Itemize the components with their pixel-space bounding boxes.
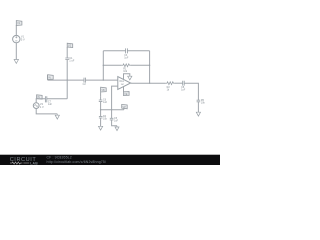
junction (C1 branch / inverting input wire) — [67, 79, 68, 80]
svg-text:1uF: 1uF — [114, 119, 119, 122]
schematic background — [0, 0, 220, 165]
flag F6 (op-amp V- supply label) — [124, 92, 130, 96]
capacitor C9 (vertical, output load) — [197, 99, 206, 104]
svg-text:5 V: 5 V — [21, 38, 25, 42]
flag F2 (node label top of C1 branch) — [67, 43, 73, 53]
wire C7 to middle branch corner — [47, 98, 67, 100]
svg-text:IN: IN — [48, 76, 51, 79]
svg-text:1 V: 1 V — [40, 105, 44, 109]
ground (op-amp V+ pin) — [128, 76, 132, 80]
ground (+input branch) — [115, 126, 119, 131]
junction (+input branch / horizontal wire) — [111, 109, 112, 110]
junction (right rail / output wire) — [149, 83, 150, 84]
ground (divider column) — [99, 126, 103, 130]
wire C9 to ground — [197, 102, 199, 112]
resistor R2 (series, output wire) — [166, 82, 175, 92]
resistor R4 (vertical, divider column lower) — [99, 115, 108, 120]
junction (left rail / middle wire) — [103, 65, 104, 66]
op-amp + input stub — [112, 86, 118, 110]
svg-text:V1: V1 — [17, 21, 21, 25]
capacitor C7 (series, input wire) — [45, 96, 52, 106]
wire C8 to right-down corner — [184, 83, 198, 100]
ground (below V1) — [14, 60, 18, 64]
svg-text:1uF: 1uF — [48, 103, 53, 106]
flag F5 (node label top of divider column) — [101, 87, 107, 96]
svg-text:1uF: 1uF — [103, 101, 108, 104]
flag F1 (node label above V1) — [16, 21, 22, 30]
capacitor C5 (vertical, +input branch) — [110, 110, 119, 123]
svg-text:1uF: 1uF — [124, 56, 129, 59]
resistor R1 (feedback middle wire) — [122, 64, 131, 73]
wire AC bottom to ground — [36, 109, 57, 114]
wire V1 to ground — [15, 43, 17, 60]
op-amp OA1 — [118, 77, 131, 90]
wire AC top to flag / series cap — [36, 99, 45, 103]
wire C6 to junction — [100, 102, 102, 117]
AC source V2 — [33, 102, 44, 109]
feedback box right rail — [149, 51, 151, 83]
svg-text:CF : 9C8265L2: CF : 9C8265L2 — [47, 155, 72, 159]
op-amp V+ pin wire to ground — [124, 74, 130, 80]
wire R4 to ground — [100, 118, 102, 126]
wire inverting input row (left part) — [48, 79, 84, 81]
wire inverting input row (right part, to op-amp) — [86, 79, 118, 81]
svg-text:VE: VE — [124, 93, 128, 96]
capacitor C1 (vertical, middle branch) — [65, 53, 75, 63]
wire divider junction to flag F7 — [101, 109, 124, 111]
wire C5 to ground corner — [112, 120, 117, 126]
svg-text:1uF: 1uF — [181, 89, 186, 92]
feedback box left rail — [102, 51, 104, 80]
svg-text:http://circuitlab.com/c/6N2v8h: http://circuitlab.com/c/6N2v8hng75/ — [47, 160, 107, 164]
capacitor C3 (series, feedback top wire) — [124, 48, 129, 59]
svg-text:V2: V2 — [68, 44, 72, 48]
flag F7 (node label, right end of horizontal wire) — [122, 104, 128, 109]
voltage source V1 — [13, 30, 25, 43]
svg-text:OA1: OA1 — [119, 80, 124, 83]
output wire (op-amp to R2) — [131, 82, 166, 84]
op-amp V- pin wire — [123, 87, 125, 92]
capacitor C2 (series, inverting wire) — [83, 78, 87, 87]
watermark bar — [0, 155, 220, 165]
svg-text:VP: VP — [123, 106, 127, 109]
wire R2 to C8 — [174, 82, 182, 84]
feedback top wire — [103, 50, 149, 52]
ground (output load) — [196, 112, 200, 116]
capacitor C6 (vertical, divider column upper) — [99, 96, 108, 104]
ground (AC source) — [55, 114, 59, 119]
junction (right rail / middle wire) — [149, 65, 150, 66]
CircuitLab logo: resistor glyph — [10, 162, 29, 164]
wire C1 down through junction to bottom-left cell — [66, 60, 68, 99]
feedback middle wire — [103, 64, 149, 66]
svg-text:1 uF: 1 uF — [69, 59, 75, 63]
flag F4 (node label above AC source) — [37, 95, 43, 99]
flag F3 (node label at left end of inverting wire) — [48, 75, 54, 80]
svg-text:LAB: LAB — [30, 161, 38, 165]
svg-text:1M: 1M — [121, 84, 124, 86]
svg-text:VB: VB — [101, 89, 105, 92]
capacitor C8 (series, output wire) — [181, 81, 186, 92]
junction (feedback left rail / inverting wire) — [103, 79, 104, 80]
junction (divider column / horizontal wire) — [100, 109, 101, 110]
